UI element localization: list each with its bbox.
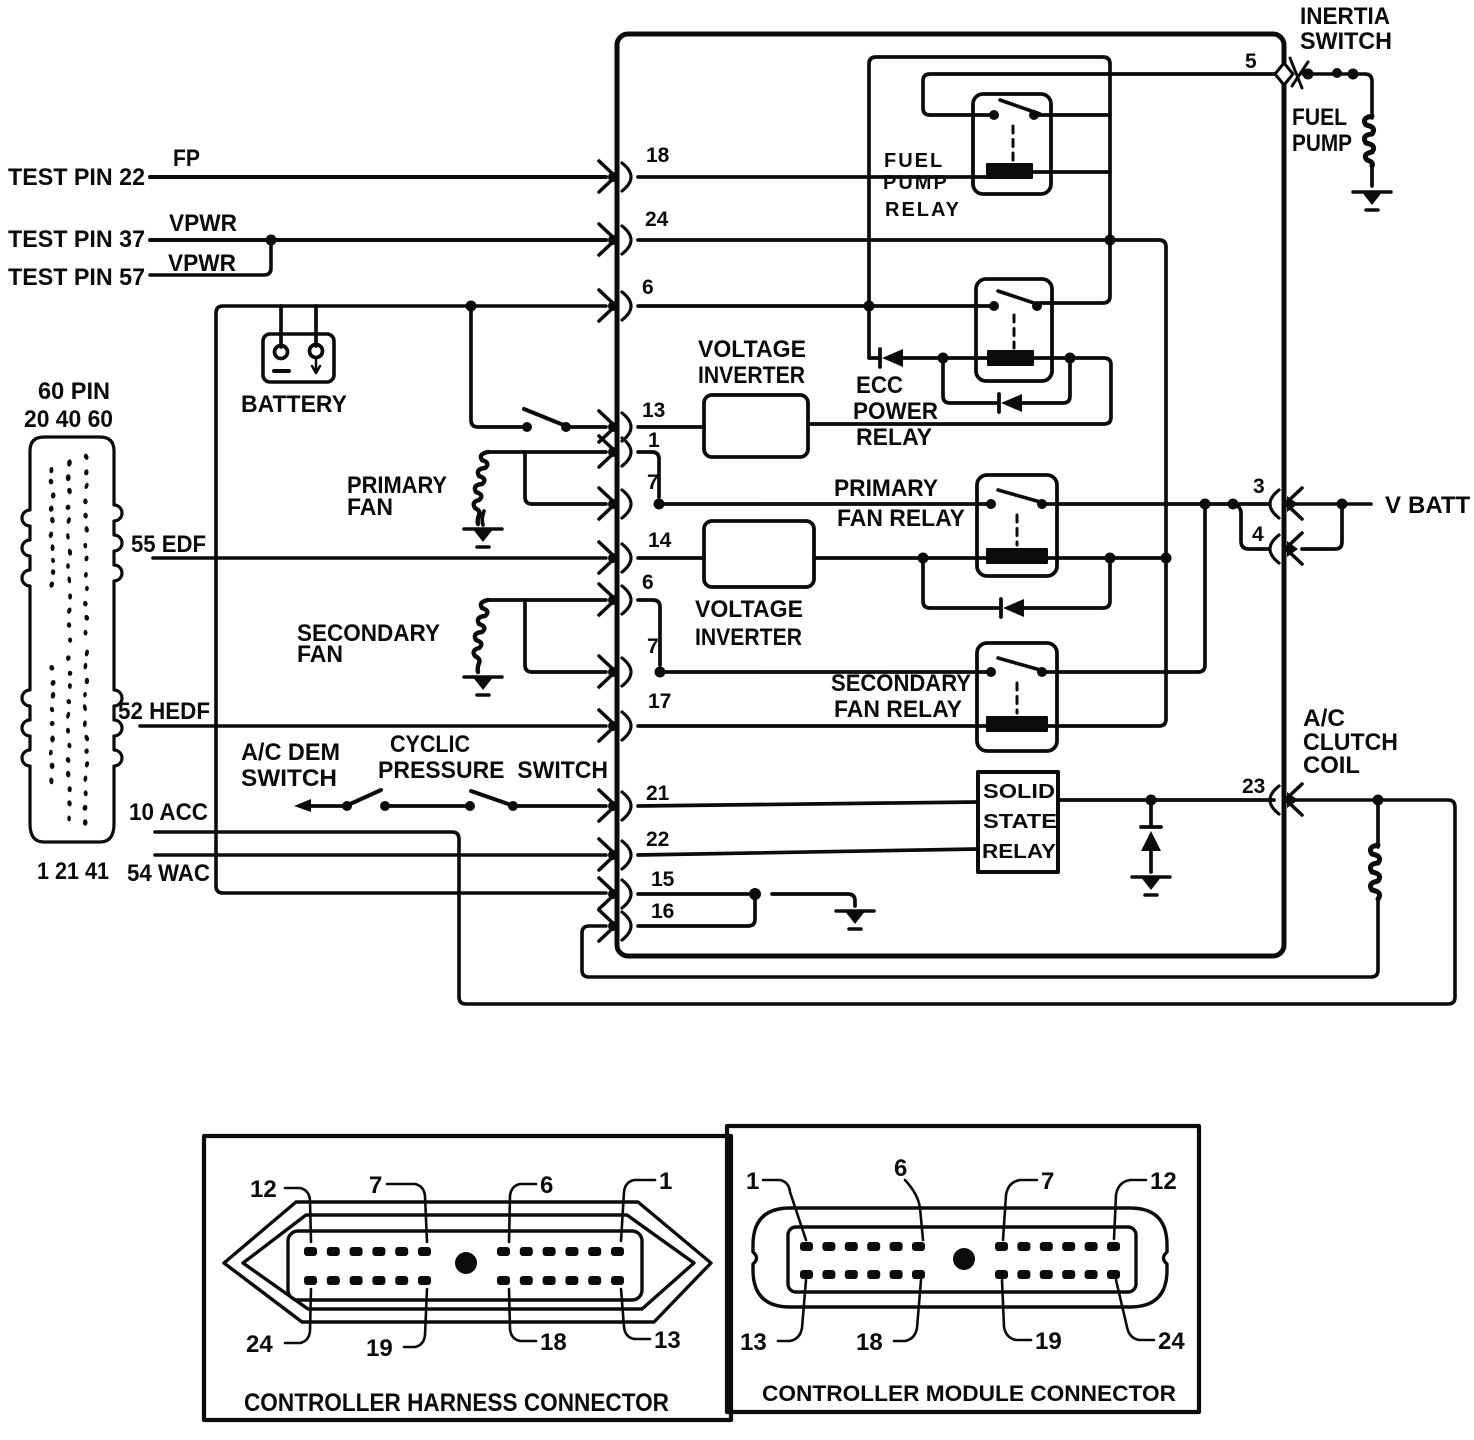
svg-text:6: 6 xyxy=(642,571,654,594)
svg-text:5: 5 xyxy=(1245,50,1257,73)
junction contact/secondary riser xyxy=(1200,499,1211,510)
junction pins 15/16 xyxy=(749,888,761,900)
secondary relay coil xyxy=(987,717,1047,731)
wire cyclic switch to pin 21 xyxy=(513,804,606,808)
svg-text:PUMP: PUMP xyxy=(883,172,949,194)
pin 5 connector (diamond) xyxy=(1275,58,1308,88)
primary flyback loop with diode CR3 xyxy=(923,558,999,608)
wire pin 6 to ECC relay contact xyxy=(638,304,990,308)
wire pin 17 to secondary coil xyxy=(638,724,987,728)
wire relay contact to VPWR riser xyxy=(1034,113,1110,117)
wire pin-4 jumper (inside) xyxy=(1233,504,1269,549)
junction pin6b/pin7b xyxy=(655,667,666,678)
pin 24 connector xyxy=(599,224,631,255)
svg-text:6: 6 xyxy=(894,1155,907,1182)
svg-text:6: 6 xyxy=(540,1172,553,1199)
svg-text:60 PIN: 60 PIN xyxy=(38,378,110,405)
pin 15 connector xyxy=(599,878,631,909)
secondary relay arm xyxy=(998,658,1044,671)
wire pin 5 to fuel pump relay common xyxy=(923,74,1274,115)
wire VPWR: TEST PIN 37 to pin 24 xyxy=(150,238,606,242)
module connector pin field xyxy=(788,1227,1136,1292)
pin 7 connector xyxy=(599,488,631,519)
fuel pump relay contacts xyxy=(989,110,999,120)
svg-text:19: 19 xyxy=(1035,1328,1062,1355)
svg-text:52 HEDF: 52 HEDF xyxy=(118,698,210,725)
svg-text:INVERTER: INVERTER xyxy=(695,624,802,651)
junction pin-6 VPWR node xyxy=(864,301,875,312)
wire SSR output to pin 23 xyxy=(1058,798,1274,802)
wire between switches xyxy=(385,804,465,808)
fuel pump relay label (handwritten) xyxy=(883,150,961,221)
A/C clutch coil L1 xyxy=(1376,800,1380,847)
wire primary contact to pin 3 / V BATT xyxy=(1042,502,1269,506)
switch S1 (power) contacts xyxy=(522,422,532,432)
diode CR4 to ground xyxy=(1149,800,1153,825)
ground (primary fan) xyxy=(464,528,502,547)
pin 13 connector xyxy=(599,411,631,442)
svg-text:10 ACC: 10 ACC xyxy=(129,799,208,826)
pin 4 connector xyxy=(1270,533,1302,564)
svg-text:FAN RELAY: FAN RELAY xyxy=(837,505,965,532)
svg-text:VOLTAGE: VOLTAGE xyxy=(698,336,806,363)
wire primary fan branch to pin 7 xyxy=(525,452,606,504)
svg-text:20 40 60: 20 40 60 xyxy=(24,406,113,433)
junction pin-4 tap xyxy=(1228,499,1239,510)
svg-text:21: 21 xyxy=(646,782,670,805)
secondary fan relay K4 box xyxy=(977,643,1057,751)
pin 7b connector xyxy=(599,656,631,687)
pin 18 connector xyxy=(599,161,631,192)
junction SSR diode tap xyxy=(1146,795,1157,806)
svg-text:24: 24 xyxy=(246,1331,273,1358)
svg-text:13: 13 xyxy=(740,1329,767,1356)
harness center post xyxy=(455,1252,477,1274)
svg-text:14: 14 xyxy=(648,529,672,552)
svg-text:23: 23 xyxy=(1242,775,1265,798)
wire pin 22 to SSR xyxy=(638,849,978,855)
wire jumper pin 6b to pin 7b (inside) xyxy=(638,600,660,665)
svg-text:FAN: FAN xyxy=(297,641,343,668)
svg-text:RELAY: RELAY xyxy=(982,841,1057,863)
svg-text:4: 4 xyxy=(1252,523,1264,546)
inertia switch S4 beads xyxy=(1303,69,1314,80)
junction ECC coil left xyxy=(938,353,949,364)
primary fan relay K3 box xyxy=(977,475,1057,576)
ECC relay arm xyxy=(998,291,1040,305)
svg-text:22: 22 xyxy=(646,828,669,851)
pin 17 connector xyxy=(599,710,631,741)
svg-text:V: V xyxy=(1385,492,1401,519)
svg-text:INVERTER: INVERTER xyxy=(698,362,805,389)
svg-text:SWITCH: SWITCH xyxy=(241,765,337,792)
wire pin 14 to voltage inverter 2 xyxy=(638,556,704,560)
diode CR1 (ECC coil feed) xyxy=(880,349,903,367)
svg-text:VPWR: VPWR xyxy=(169,210,237,237)
svg-text:PRESSURE SWITCH: PRESSURE SWITCH xyxy=(378,757,608,784)
wire 54 WAC to pin 22 xyxy=(155,853,606,857)
fuel pump motor M3 (coil) xyxy=(1364,116,1373,166)
svg-text:19: 19 xyxy=(366,1335,393,1362)
module pin dashes row 2 xyxy=(800,1270,1120,1279)
wire pin-6 node down to diode CR1 xyxy=(869,306,878,358)
wire VPWR loop over relay (pin-6 node to pin-24 node) xyxy=(869,57,1110,303)
wire jumper pin 1 to pin 7 (inside) xyxy=(638,452,659,497)
svg-text:15: 15 xyxy=(651,868,675,891)
ECM controller box xyxy=(617,34,1284,956)
ground (pin 15) xyxy=(836,910,874,929)
svg-text:SOLID: SOLID xyxy=(983,781,1055,803)
pin 1 connector xyxy=(599,436,631,467)
svg-text:6: 6 xyxy=(642,276,654,299)
ground (secondary fan) xyxy=(464,676,502,695)
svg-text:1: 1 xyxy=(746,1168,759,1195)
junction ECC coil right xyxy=(1065,353,1076,364)
pin 22 connector xyxy=(599,839,631,870)
switch S2 (A/C DEM) xyxy=(342,801,352,811)
svg-text:24: 24 xyxy=(1158,1328,1185,1355)
svg-text:1 21 41: 1 21 41 xyxy=(37,858,109,885)
wire secondary fan to pin 6b xyxy=(488,598,606,602)
wire pin 21 to SSR xyxy=(638,802,978,806)
wire pin 5 to inertia switch to fuel pump xyxy=(1303,74,1372,118)
svg-text:16: 16 xyxy=(651,900,674,923)
controller module connector box xyxy=(727,1126,1199,1412)
wire V BATT xyxy=(1296,502,1371,506)
fuel pump relay arm xyxy=(1000,100,1040,114)
harness connector pin field xyxy=(288,1231,642,1300)
primary relay actuator dashes xyxy=(1016,515,1019,545)
svg-text:FUEL: FUEL xyxy=(884,150,944,172)
wire relay coil to VPWR riser xyxy=(1032,170,1110,174)
wire pin7 node to primary relay contact xyxy=(659,502,988,506)
svg-text:FP: FP xyxy=(173,145,200,172)
fuel pump relay K1 box xyxy=(973,94,1051,194)
svg-text:RELAY: RELAY xyxy=(856,424,932,451)
voltage inverter 2 box xyxy=(704,521,814,587)
wire secondary fan branch to pin 7b xyxy=(525,600,606,672)
pin 21 connector xyxy=(599,790,631,821)
harness connector outline outer xyxy=(224,1202,711,1322)
primary relay arm xyxy=(998,490,1044,503)
svg-text:13: 13 xyxy=(642,399,665,422)
svg-text:18: 18 xyxy=(646,144,670,167)
svg-text:SWITCH: SWITCH xyxy=(1300,28,1392,55)
wire 55 EDF to pin 14 xyxy=(153,556,606,560)
svg-text:POWER: POWER xyxy=(853,398,938,425)
svg-text:7: 7 xyxy=(369,1172,382,1199)
wire pin 16 up to pin-15 junction xyxy=(638,897,755,926)
pin 16 connector xyxy=(599,910,631,941)
wire pin 16 external loop to A/C clutch coil bottom xyxy=(582,899,1378,977)
junction pin-24/relay riser xyxy=(1105,235,1116,246)
svg-text:7: 7 xyxy=(1041,1168,1054,1195)
harness pin dashes row 1 xyxy=(304,1247,624,1256)
module connector outline outer xyxy=(753,1208,1167,1307)
svg-text:18: 18 xyxy=(540,1329,567,1356)
secondary relay actuator dashes xyxy=(1016,683,1019,713)
switch S1 arm xyxy=(524,409,566,426)
ECC power relay K2 box xyxy=(976,279,1052,381)
wire primary fan to pin 1 xyxy=(488,450,606,454)
pin 6b connector xyxy=(599,584,631,615)
module center post xyxy=(953,1248,975,1270)
svg-text:A/C: A/C xyxy=(1303,705,1345,732)
wire pin 15 to junction xyxy=(638,892,748,896)
svg-text:TEST PIN 37: TEST PIN 37 xyxy=(8,226,145,253)
svg-text:12: 12 xyxy=(250,1176,277,1203)
ground (SSR diode) xyxy=(1132,876,1170,895)
svg-text:CONTROLLER HARNESS CONNECTOR: CONTROLLER HARNESS CONNECTOR xyxy=(244,1389,669,1417)
svg-text:RELAY: RELAY xyxy=(885,199,961,221)
svg-text:7: 7 xyxy=(647,635,659,658)
svg-text:TEST PIN 22: TEST PIN 22 xyxy=(8,164,145,191)
controller harness connector box xyxy=(204,1136,731,1420)
svg-text:PUMP: PUMP xyxy=(1292,130,1352,157)
ECC relay coil xyxy=(988,351,1033,365)
module pin dashes row 1 xyxy=(800,1242,1120,1251)
svg-text:24: 24 xyxy=(645,208,669,231)
wire switch to pin 13 xyxy=(566,425,606,429)
ECC relay actuator dashes xyxy=(1013,315,1016,348)
solid state relay label/box xyxy=(978,772,1058,872)
svg-text:BATT: BATT xyxy=(1408,492,1471,519)
svg-text:FAN RELAY: FAN RELAY xyxy=(834,696,962,723)
60-pin connector pin dots xyxy=(48,453,90,826)
svg-text:BATTERY: BATTERY xyxy=(241,391,347,418)
svg-text:VPWR: VPWR xyxy=(168,250,236,277)
svg-text:18: 18 xyxy=(856,1329,883,1356)
svg-text:54 WAC: 54 WAC xyxy=(127,860,210,887)
pin 6 connector xyxy=(599,290,631,321)
primary relay coil xyxy=(987,549,1047,563)
junction A/C clutch coil top xyxy=(1373,795,1384,806)
wire inverter 2 to primary coil and rail xyxy=(814,556,1166,560)
harness pin dashes row 2 xyxy=(304,1276,624,1285)
secondary fan motor M2 (coil) xyxy=(474,600,488,672)
svg-text:1: 1 xyxy=(659,1168,672,1195)
switch S3 (cyclic pressure) xyxy=(465,801,475,811)
svg-text:INERTIA: INERTIA xyxy=(1300,3,1390,30)
wire pin 13 to voltage inverter 1 xyxy=(638,425,704,429)
wire diode to ECC coil xyxy=(903,356,988,360)
svg-text:1: 1 xyxy=(648,429,660,452)
svg-text:STATE: STATE xyxy=(983,811,1057,833)
svg-text:COIL: COIL xyxy=(1303,752,1360,779)
svg-text:SECONDARY: SECONDARY xyxy=(831,670,971,697)
primary relay contacts xyxy=(986,499,996,509)
svg-text:CYCLIC: CYCLIC xyxy=(390,731,470,758)
junction battery bus xyxy=(466,301,477,312)
wire pin7b node to secondary relay contact xyxy=(660,670,988,674)
primary fan motor M1 (coil) xyxy=(474,452,488,524)
wire battery junction down to key switch xyxy=(471,306,522,427)
junction pin1/pin7 xyxy=(654,499,665,510)
ECC relay contacts xyxy=(989,301,999,311)
wire 10 ACC long return loop to pin 23 node xyxy=(155,800,1455,1004)
wire 52 HEDF to pin 17 xyxy=(140,724,606,728)
voltage inverter 1 box xyxy=(704,395,808,457)
fuel pump relay coil xyxy=(987,164,1032,178)
60-pin connector body xyxy=(22,437,122,842)
fuel pump relay actuator dashes xyxy=(1012,126,1015,162)
svg-text:3: 3 xyxy=(1253,475,1265,498)
junction flyback right xyxy=(1105,553,1116,564)
wire V BATT to pin 4 xyxy=(1302,504,1342,549)
svg-text:12: 12 xyxy=(1150,1168,1177,1195)
svg-text:FAN: FAN xyxy=(347,494,393,521)
svg-text:ECC: ECC xyxy=(856,372,903,399)
junction inverter2/flyback left xyxy=(918,553,929,564)
wire pin 24 VPWR to fan-relay rail xyxy=(638,240,1166,726)
ECC flyback loop with diode CR2 xyxy=(943,358,997,403)
svg-text:FUEL: FUEL xyxy=(1292,104,1347,131)
wire battery bus to pin 6 (with left box edge down to pin 15 row) xyxy=(216,306,606,893)
battery B1 xyxy=(263,306,334,382)
wire junction to ground stub xyxy=(772,894,855,906)
junction rail / primary coil xyxy=(1161,553,1172,564)
svg-text:A/C DEM: A/C DEM xyxy=(241,739,340,766)
pin 3 connector xyxy=(1270,488,1302,519)
wire secondary contact riser to V BATT node xyxy=(1042,509,1205,672)
wire ECC coil right to voltage inverter output xyxy=(808,358,1111,424)
svg-text:7: 7 xyxy=(647,471,659,494)
svg-text:VOLTAGE: VOLTAGE xyxy=(695,596,803,623)
junction VPWR test pins xyxy=(266,235,277,246)
svg-text:17: 17 xyxy=(648,690,671,713)
svg-text:13: 13 xyxy=(654,1327,681,1354)
wire FP: TEST PIN 22 to pin 18 xyxy=(150,175,606,179)
ground (fuel pump) xyxy=(1353,191,1391,210)
wire A/C demand line with arrow xyxy=(294,799,311,812)
svg-text:PRIMARY: PRIMARY xyxy=(834,475,938,502)
junction V BATT split xyxy=(1337,499,1348,510)
svg-text:TEST PIN 57: TEST PIN 57 xyxy=(8,264,145,291)
wire pin 18 to relay coil xyxy=(638,175,987,179)
harness connector outline inner xyxy=(243,1215,694,1309)
svg-text:CONTROLLER MODULE CONNECTOR: CONTROLLER MODULE CONNECTOR xyxy=(762,1381,1176,1406)
secondary relay contacts xyxy=(986,667,996,677)
wire VPWR: TEST PIN 57 riser joining pin-37 wire xyxy=(150,243,271,275)
svg-text:55 EDF: 55 EDF xyxy=(131,531,206,558)
pin 14 connector xyxy=(599,542,631,573)
pin 23 connector xyxy=(1270,784,1302,815)
